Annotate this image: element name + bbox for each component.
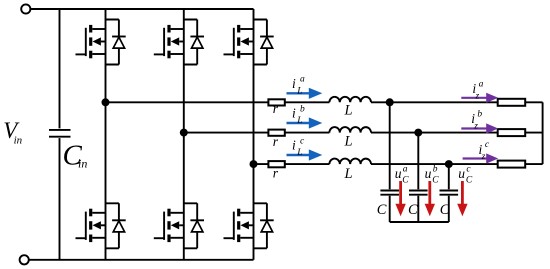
svg-text:b: b <box>477 110 482 120</box>
transistor Q4 lower leg b <box>154 209 184 242</box>
svg-text:a: a <box>300 75 305 85</box>
current arrow iL a <box>287 92 310 94</box>
svg-text:u: u <box>458 166 465 181</box>
svg-text:a: a <box>479 80 484 90</box>
wire leg c vertical <box>253 9 255 260</box>
resistor r phase b <box>268 130 284 136</box>
wire phase a line <box>106 101 543 103</box>
node phase c leg <box>250 160 258 168</box>
inductor L phase c <box>329 159 371 165</box>
load resistor phase a <box>498 99 526 106</box>
capacitor C phase c <box>440 190 459 192</box>
resistor r phase a <box>268 99 284 105</box>
svg-text:u: u <box>395 166 402 181</box>
wire phase b line <box>184 132 543 134</box>
wire leg a vertical <box>105 9 107 260</box>
svg-text:u: u <box>425 166 432 181</box>
wire filter cap branch b <box>417 133 419 222</box>
capacitor Cin <box>49 129 71 131</box>
svg-text:C: C <box>466 175 473 185</box>
capacitor C phase a <box>380 190 399 192</box>
svg-text:z: z <box>473 121 478 131</box>
node cap c junction <box>445 160 453 168</box>
transistor Q5 upper leg c <box>224 25 254 58</box>
wire Cin branch <box>59 9 61 260</box>
transistor Q3 upper leg b <box>154 25 184 58</box>
current arrow iz a <box>461 97 487 99</box>
diode D3 <box>184 20 204 65</box>
svg-text:L: L <box>296 116 302 126</box>
capacitor C phase b <box>409 190 428 192</box>
svg-text:z: z <box>481 152 486 162</box>
wire cap bank bottom bar <box>390 221 449 223</box>
svg-text:C: C <box>432 175 439 185</box>
svg-text:C: C <box>408 202 418 218</box>
svg-text:a: a <box>403 165 408 175</box>
svg-text:L: L <box>344 133 353 149</box>
node phase a leg <box>102 98 110 106</box>
svg-text:i: i <box>292 138 296 153</box>
load resistor phase b <box>498 129 526 136</box>
current arrow iz c <box>463 157 487 159</box>
node cap a junction <box>386 98 394 106</box>
svg-text:b: b <box>433 165 438 175</box>
wire filter cap branch c <box>448 164 450 222</box>
voltage arrow uC a <box>399 181 402 204</box>
svg-text:C: C <box>440 202 450 218</box>
node phase b leg <box>180 129 188 137</box>
transistor Q6 lower leg c <box>224 209 254 242</box>
transistor Q1 upper leg a <box>76 25 106 58</box>
svg-text:b: b <box>300 104 305 114</box>
input terminal - <box>20 255 29 264</box>
node cap b junction <box>414 129 422 137</box>
wire filter cap branch a <box>389 102 391 222</box>
diode D2 <box>106 203 126 248</box>
svg-text:z: z <box>475 91 480 101</box>
input terminal + <box>21 4 30 13</box>
wire bottom DC rail <box>29 259 254 261</box>
wire phase c line <box>254 163 543 165</box>
svg-text:L: L <box>296 148 302 158</box>
load resistor phase c <box>498 161 526 168</box>
wire top DC rail <box>30 8 253 10</box>
svg-text:L: L <box>344 166 353 182</box>
diode D6 <box>254 203 274 248</box>
svg-text:i: i <box>292 106 296 121</box>
wire leg b vertical <box>183 9 185 260</box>
voltage arrow uC c <box>461 181 464 204</box>
svg-text:L: L <box>344 103 353 119</box>
transistor Q2 lower leg a <box>76 209 106 242</box>
diode D4 <box>184 203 204 248</box>
svg-text:r: r <box>273 101 279 116</box>
inductor L phase b <box>329 127 371 133</box>
wire load star vertical <box>542 102 544 164</box>
inductor L phase a <box>329 97 371 103</box>
svg-text:i: i <box>292 76 296 91</box>
svg-text:in: in <box>78 157 87 171</box>
diode D5 <box>254 20 274 65</box>
svg-text:r: r <box>273 134 279 149</box>
resistor r phase c <box>268 161 284 167</box>
current arrow iz b <box>461 127 487 129</box>
svg-text:r: r <box>273 165 279 180</box>
current arrow iL c <box>287 154 310 156</box>
svg-text:L: L <box>296 86 302 96</box>
diode D1 <box>106 20 126 65</box>
svg-text:C: C <box>377 202 387 218</box>
svg-text:in: in <box>14 134 23 146</box>
svg-text:C: C <box>402 175 409 185</box>
current arrow iL b <box>287 122 310 124</box>
voltage arrow uC b <box>428 181 431 204</box>
